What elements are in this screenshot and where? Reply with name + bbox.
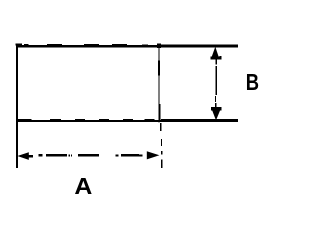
dimension line B (vertical)	[216, 59, 217, 65]
dimension B arrow down	[211, 107, 221, 120]
part outline: top edge	[16, 45, 238, 47]
dimension A arrow left	[17, 152, 28, 160]
dimension line A (horizontal dash-dot)	[38, 154, 42, 156]
part outline: bottom edge	[16, 120, 238, 122]
part outline: top-right corner blob	[157, 43, 161, 48]
dimension B arrow up	[211, 47, 219, 59]
part outline: right edge	[158, 46, 159, 123]
part outline: left edge with extension line down	[16, 44, 18, 168]
dimension A arrow right	[147, 151, 160, 159]
svg-text:A: A	[74, 174, 92, 200]
right extension line (dashed) below part	[160, 123, 161, 131]
svg-text:B: B	[246, 70, 259, 95]
